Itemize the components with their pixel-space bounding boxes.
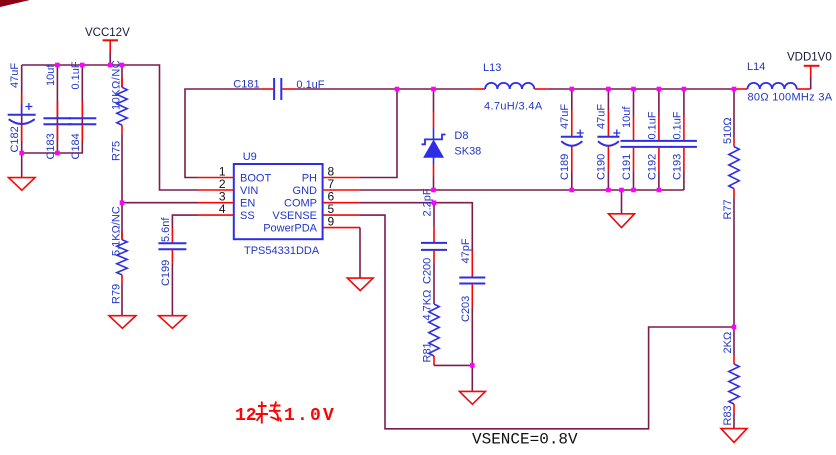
svg-text:1.0V: 1.0V [284,406,336,426]
capacitor C189 [559,89,584,190]
wire stem to compensation ground [471,365,473,391]
svg-text:EN: EN [240,198,255,210]
svg-text:VIN: VIN [240,185,258,197]
svg-text:47uF: 47uF [595,104,607,129]
ground under output caps [609,190,635,228]
svg-text:C199: C199 [160,260,172,286]
capacitor C200 [421,188,447,284]
node PH junction [395,87,400,92]
svg-text:80Ω 100MHz 3A: 80Ω 100MHz 3A [748,92,833,104]
svg-text:47pF: 47pF [460,238,472,263]
text VSENCE=0.8V [472,431,578,449]
sheet corner wedge [0,0,30,7]
capacitor C192 [646,89,672,190]
capacitor C182 [8,63,36,153]
svg-text:C189: C189 [559,154,571,180]
pin 6 COMP [323,190,360,204]
node C192 bottom [657,188,662,193]
node C184 top [80,63,85,68]
svg-text:VSENCE=0.8V: VSENCE=0.8V [472,431,578,449]
node C191 top [631,87,636,92]
svg-text:U9: U9 [243,151,257,163]
op-amp U1 : IC U9 TPS54331DDA body [234,151,323,257]
pin 4 SS [198,202,234,216]
wire EN net R75/R79 to pin 3 [122,202,198,204]
node gnd stem [619,188,624,193]
svg-text:C192: C192 [646,154,658,180]
svg-text:R77: R77 [722,199,734,219]
node L14/R77 [732,87,737,92]
svg-text:PH: PH [302,173,317,185]
svg-text:PowerPDA: PowerPDA [263,223,317,235]
node R75 top [120,63,125,68]
node C203 bottom [470,363,475,368]
ground under R83 [721,429,747,443]
resistor R81 [422,262,440,365]
ground under C199 [159,316,187,329]
capacitor C203 [459,226,485,365]
wire switch node C181 to PH riser and D8 [296,88,433,90]
svg-text:C203: C203 [460,296,472,322]
node VCC stem [108,63,113,68]
ground under C182 [9,153,36,190]
node D8 top [431,87,436,92]
text 12转1.0V [235,402,336,427]
capacitor C193 [671,89,697,190]
node C182 bottom [19,151,24,156]
wire top-left VCC rail [22,65,198,190]
wire PowerPDA to ground [359,228,361,279]
svg-text:9: 9 [328,215,335,229]
svg-text:BOOT: BOOT [240,173,271,185]
svg-text:L14: L14 [747,61,765,73]
wire COMP net pin6 to C200/C203 [360,203,472,226]
svg-text:C190: C190 [595,154,607,180]
pin 8 PH [323,165,360,179]
capacitor C199 [158,217,186,316]
svg-text:C193: C193 [671,154,683,180]
wire R81 bottom to C203 bottom [434,364,472,366]
pin 9 PowerPDA [323,215,360,229]
wire GND net pin7 to output cap rail [360,189,684,191]
svg-text:R83: R83 [722,405,734,425]
node C193 top [682,87,687,92]
svg-text:SK38: SK38 [454,146,481,158]
svg-text:C184: C184 [70,133,82,159]
svg-text:0.1uF: 0.1uF [646,111,658,139]
node C183 bottom [55,151,60,156]
svg-text:2KΩ: 2KΩ [722,332,734,354]
node VDD1V0 power symbol [787,52,832,78]
svg-text:C182: C182 [9,126,21,152]
svg-text:47uF: 47uF [9,63,21,88]
svg-text:TPS54331DDA: TPS54331DDA [244,245,320,257]
pin 5 VSENSE [323,202,360,216]
diode D8 SK38 [422,89,482,190]
resistor R75 [111,60,128,203]
svg-text:C183: C183 [45,133,57,159]
wire VSENSE feedback run [360,215,734,429]
node C192 top [657,87,662,92]
node C191 bottom [631,188,636,193]
svg-text:L13: L13 [483,62,501,74]
svg-text:COMP: COMP [284,198,317,210]
resistor R83 [722,327,739,429]
capacitor C183 [43,64,71,160]
node R83 top [732,325,737,330]
node C200 top [432,200,437,205]
wire C183 column [56,65,58,153]
node C189 bottom [570,188,575,193]
svg-text:R79: R79 [111,284,123,304]
resistor R79 [111,203,128,316]
inductor L13 [473,62,548,113]
svg-text:C181: C181 [233,79,259,91]
svg-text:5.1KΩ/NC: 5.1KΩ/NC [111,206,123,256]
svg-text:R81: R81 [422,342,434,362]
resistor R77 [722,89,739,327]
node C189 top [570,87,575,92]
svg-text:4.7uH/3.4A: 4.7uH/3.4A [484,101,543,113]
svg-text:VCC12V: VCC12V [85,27,130,39]
pin 3 EN [198,190,234,204]
pin 1 BOOT [198,165,234,179]
svg-text:D8: D8 [454,130,468,142]
capacitor C191 [621,89,647,190]
svg-text:4: 4 [219,202,226,216]
pin 7 GND [323,177,360,191]
svg-text:0.1uF: 0.1uF [671,111,683,139]
ground under R79 [109,316,136,329]
svg-text:C191: C191 [621,154,633,180]
svg-text:47uF: 47uF [559,104,571,129]
wire BOOT riser to C181 [185,89,260,178]
ground under C203/R81 [459,391,485,404]
node C183 top [55,63,60,68]
wire output rail L13 to L14/R77 [547,88,734,90]
inductor L14 [734,61,833,104]
svg-text:4.7KΩ: 4.7KΩ [422,290,434,321]
wire SS net C199 to pin 4 [172,215,197,228]
wire switch node D8 to L13 [434,88,473,90]
svg-text:10uf: 10uf [621,106,633,128]
node C190 top [606,87,611,92]
ground under PowerPDA [347,278,373,291]
svg-text:510Ω: 510Ω [722,117,734,144]
capacitor C184 [68,61,96,159]
svg-text:GND: GND [293,185,318,197]
pin 2 VIN [198,177,234,191]
node D8 bottom [431,188,436,193]
svg-text:5.6nf: 5.6nf [160,217,172,242]
svg-text:SS: SS [240,210,255,222]
wire bottom-left cap rail [22,65,83,153]
capacitor C190 [595,89,620,190]
node VCC12V power symbol [85,27,130,53]
capacitor C181 [233,78,325,100]
wire VCC bus to top-left rail [109,53,111,66]
wire PH riser [360,89,397,178]
svg-text:VDD1V0: VDD1V0 [787,52,832,64]
svg-text:R75: R75 [111,141,123,161]
node C190 bottom [606,188,611,193]
node EN junction [120,200,125,205]
svg-text:12: 12 [235,406,257,426]
wire L14 to VDD1V0 [810,77,812,89]
svg-text:VSENSE: VSENSE [272,210,317,222]
svg-text:C200: C200 [422,258,434,284]
